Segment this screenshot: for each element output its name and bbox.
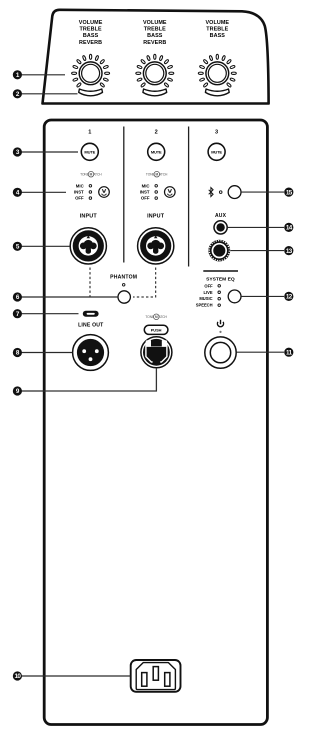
channel divider line 1-2 xyxy=(123,127,125,263)
svg-text:MUTE: MUTE xyxy=(211,149,222,154)
channel divider line 2-3 xyxy=(188,127,190,267)
channel 3 MUTE button xyxy=(208,143,225,160)
channel 2 number label xyxy=(155,130,158,136)
bluetooth symbol xyxy=(209,188,213,197)
callout line 2 xyxy=(22,93,78,95)
svg-text:1: 1 xyxy=(88,130,91,136)
XLR line out connector xyxy=(73,335,109,371)
knob 1 labels xyxy=(79,20,103,46)
callout line 10 xyxy=(22,675,131,677)
svg-text:VOLUME: VOLUME xyxy=(205,20,229,26)
callout line 8 xyxy=(22,352,73,354)
callout line 1 xyxy=(22,74,66,76)
PUSH latch label xyxy=(144,325,168,334)
channel 2 ToneMatch logo xyxy=(146,171,168,177)
SYSTEM EQ mode labels and indicators xyxy=(196,283,221,307)
callout line 4 xyxy=(22,191,67,193)
svg-text:MUTE: MUTE xyxy=(84,149,95,154)
ToneMatch RJ45 connector xyxy=(141,337,172,368)
svg-text:REVERB: REVERB xyxy=(143,40,166,46)
svg-text:10: 10 xyxy=(14,673,21,680)
callout line 6 xyxy=(22,296,118,298)
callout marker 15 xyxy=(284,188,293,197)
callout line 3 xyxy=(22,151,79,153)
callout line 14 xyxy=(227,226,284,228)
svg-text:ATCH: ATCH xyxy=(159,172,168,176)
channel 1 ToneMatch select button xyxy=(99,187,110,198)
knob 3 tick marks xyxy=(198,54,236,87)
callout marker 4 xyxy=(13,188,22,197)
callout marker 6 xyxy=(13,292,22,301)
channel 2 combo input jack xyxy=(138,228,174,264)
svg-text:TREBLE: TREBLE xyxy=(80,27,102,33)
phantom dashed link channel 1 xyxy=(90,268,109,298)
phantom indicator LED xyxy=(122,284,125,287)
quarter-inch line input jack xyxy=(208,240,230,262)
callout line 13 xyxy=(230,250,284,252)
svg-text:LIVE: LIVE xyxy=(203,290,212,295)
callout line 12 xyxy=(241,295,284,297)
svg-text:INST: INST xyxy=(74,190,84,195)
knob 2 body xyxy=(143,62,166,85)
knob 2 front skirt wedge xyxy=(143,89,167,96)
svg-text:OFF: OFF xyxy=(204,283,213,288)
callout marker 1 xyxy=(13,70,22,79)
power button xyxy=(205,337,236,368)
channel 1 combo input jack xyxy=(70,228,106,264)
svg-text:MUSIC: MUSIC xyxy=(199,296,212,301)
svg-text:14: 14 xyxy=(286,225,293,232)
callout line 5 xyxy=(22,245,70,247)
AUX 3.5mm jack xyxy=(214,221,227,234)
PHANTOM label xyxy=(110,274,137,280)
svg-text:BASS: BASS xyxy=(83,33,99,39)
knob 3 front skirt wedge xyxy=(205,89,229,96)
svg-text:AUX: AUX xyxy=(215,213,227,219)
svg-text:REVERB: REVERB xyxy=(79,40,102,46)
bluetooth indicator LED xyxy=(219,191,222,194)
svg-text:VOLUME: VOLUME xyxy=(79,20,103,26)
svg-text:OFF: OFF xyxy=(141,196,150,201)
svg-text:ATCH: ATCH xyxy=(159,315,168,319)
svg-text:3: 3 xyxy=(215,130,218,136)
svg-text:SPEECH: SPEECH xyxy=(196,303,213,308)
svg-text:PHANTOM: PHANTOM xyxy=(110,274,137,280)
channel 1 MUTE button xyxy=(81,143,98,160)
svg-text:2: 2 xyxy=(155,130,158,136)
knob 1 body xyxy=(79,62,102,85)
callout line 11 xyxy=(237,351,284,353)
channel 2 MIC/INST/OFF switch labels and indicators xyxy=(140,183,158,200)
callout marker 8 xyxy=(13,348,22,357)
channel 1 ToneMatch logo xyxy=(80,171,102,177)
svg-text:TREBLE: TREBLE xyxy=(206,27,228,33)
svg-text:BASS: BASS xyxy=(210,33,226,39)
callout marker 10 xyxy=(13,671,22,680)
svg-text:MIC: MIC xyxy=(142,183,150,188)
SYSTEM EQ button xyxy=(228,290,241,303)
svg-text:12: 12 xyxy=(286,294,293,301)
ToneMatch port logo xyxy=(145,314,167,320)
phantom dashed link channel 2 xyxy=(133,268,156,298)
svg-text:SYSTEM EQ: SYSTEM EQ xyxy=(206,276,235,282)
svg-text:PUSH: PUSH xyxy=(151,328,162,333)
IEC power inlet xyxy=(131,660,181,692)
knob 3 body xyxy=(206,62,229,85)
channel 2 MUTE button xyxy=(148,143,165,160)
svg-text:INST: INST xyxy=(140,190,150,195)
channel 1 INPUT label xyxy=(80,214,98,220)
callout marker 14 xyxy=(284,223,293,232)
phantom power button xyxy=(118,291,130,303)
callout marker 2 xyxy=(13,89,22,98)
svg-text:MIC: MIC xyxy=(76,183,84,188)
power symbol xyxy=(217,320,223,327)
callout marker 13 xyxy=(284,246,293,255)
separator line above SYSTEM EQ xyxy=(203,270,238,272)
channel 2 ToneMatch select button xyxy=(165,187,176,198)
knob 1 tick marks xyxy=(72,54,110,87)
svg-text:ATCH: ATCH xyxy=(93,172,102,176)
LINE OUT label xyxy=(78,322,104,328)
AUX label xyxy=(215,213,227,219)
svg-text:OFF: OFF xyxy=(75,196,84,201)
top control panel outline xyxy=(43,10,269,104)
knob 2 tick marks xyxy=(136,54,174,87)
power indicator LED xyxy=(219,331,221,333)
svg-text:BASS: BASS xyxy=(147,33,163,39)
callout line 15 xyxy=(241,191,284,193)
knob 1 front skirt wedge xyxy=(79,89,103,96)
svg-text:13: 13 xyxy=(286,248,293,255)
channel 3 number label xyxy=(215,130,218,136)
callout line 7 xyxy=(22,313,79,315)
main rear panel outline xyxy=(44,120,267,725)
channel 1 number label xyxy=(88,130,91,136)
channel 1 MIC/INST/OFF switch labels and indicators xyxy=(74,183,92,200)
svg-text:INPUT: INPUT xyxy=(80,214,98,220)
USB charge port xyxy=(83,311,99,317)
callout marker 3 xyxy=(13,147,22,156)
callout marker 7 xyxy=(13,309,22,318)
knob 2 labels xyxy=(143,20,167,46)
knob 3 labels xyxy=(205,20,229,39)
channel 2 INPUT label xyxy=(147,214,165,220)
SYSTEM EQ label xyxy=(206,276,235,282)
callout marker 11 xyxy=(284,348,293,357)
bluetooth pairing button xyxy=(228,186,241,199)
svg-text:MUTE: MUTE xyxy=(151,149,162,154)
callout marker 9 xyxy=(13,386,22,395)
svg-text:TREBLE: TREBLE xyxy=(144,27,166,33)
callout marker 5 xyxy=(13,242,22,251)
wire from ToneMatch connector to callout 9 xyxy=(44,368,156,391)
svg-text:15: 15 xyxy=(286,189,293,196)
svg-text:VOLUME: VOLUME xyxy=(143,20,167,26)
svg-text:INPUT: INPUT xyxy=(147,214,165,220)
callout marker 12 xyxy=(284,292,293,301)
callout line 9 xyxy=(22,390,45,392)
svg-text:LINE OUT: LINE OUT xyxy=(78,322,104,328)
